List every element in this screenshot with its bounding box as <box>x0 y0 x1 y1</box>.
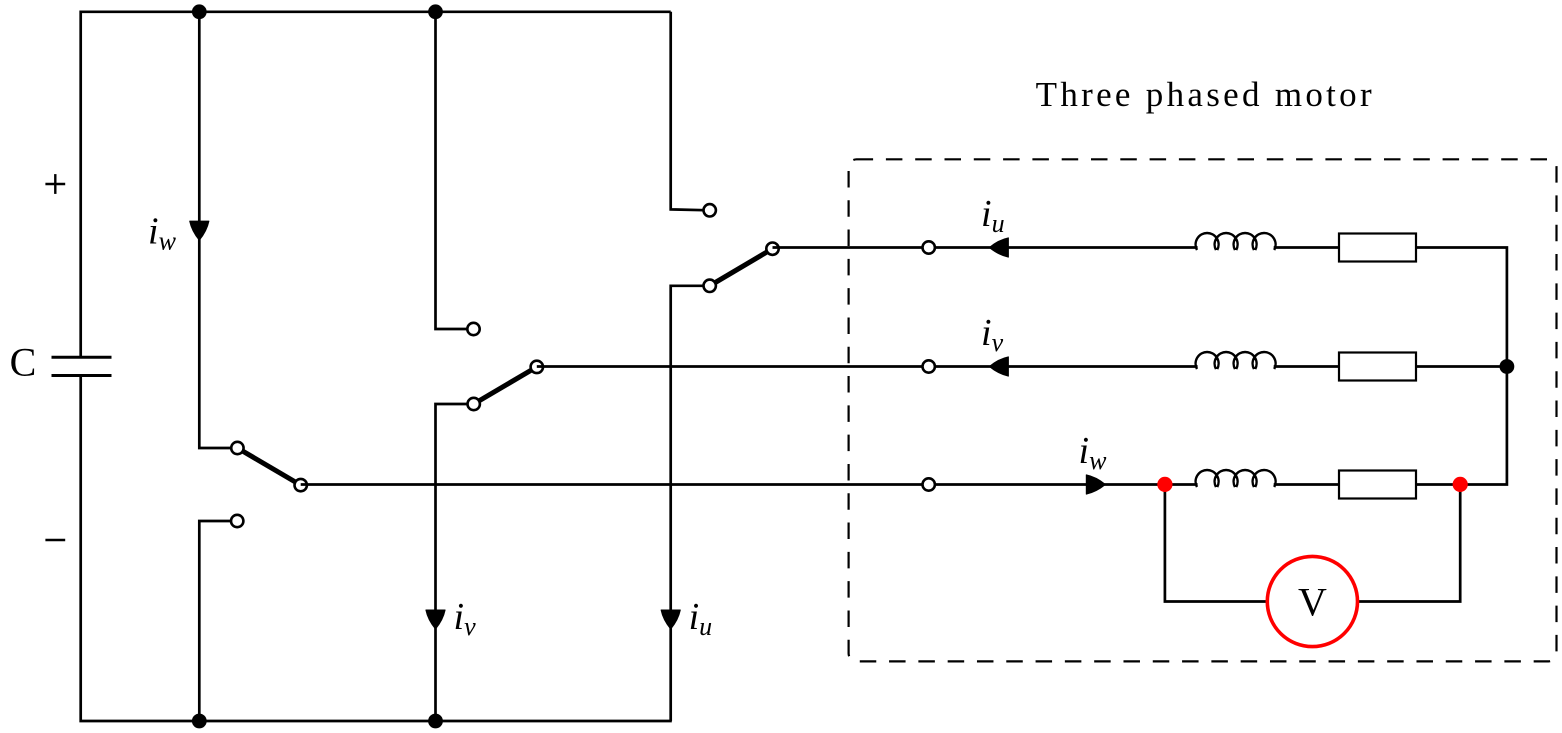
switch SU top contact <box>704 204 716 216</box>
wire bottom rail <box>81 375 672 721</box>
junction top rail / leg v <box>428 4 443 19</box>
junction bottom rail / leg v <box>428 714 443 729</box>
switch SV bottom contact <box>468 398 480 410</box>
arrow i_v (leg v) <box>426 610 445 629</box>
wire phase v line <box>537 365 1198 368</box>
wire top rail <box>81 12 671 358</box>
svg-text:C: C <box>10 340 37 385</box>
arrow i_w (leg w) <box>190 221 209 240</box>
switch SV bar (leg v, closed down) <box>474 367 537 404</box>
wire phase v right <box>1274 365 1339 368</box>
wire leg u top segment <box>671 12 710 211</box>
terminal circle phase w <box>923 478 935 490</box>
svg-text:V: V <box>1298 580 1327 625</box>
wire phase w line <box>301 483 1198 486</box>
capacitor C <box>52 357 112 375</box>
wire leg v bottom segment <box>436 404 474 721</box>
switch SW bar (leg w, closed up) <box>237 448 300 485</box>
resistor R_u <box>1339 234 1416 262</box>
motor enclosure dashed box <box>849 159 1557 661</box>
wire leg u bottom segment <box>671 286 710 721</box>
wire phase w to bus <box>1416 367 1507 485</box>
wire phase w right <box>1274 483 1339 486</box>
wire phase u right <box>1274 246 1339 249</box>
inductor L_u <box>1196 233 1276 250</box>
switch SU bottom contact <box>704 280 716 292</box>
wire leg v top segment <box>436 12 474 329</box>
arrow i_u (leg u) <box>661 610 680 629</box>
arrow i_v (phase v) <box>989 357 1008 376</box>
label + <box>45 174 65 194</box>
inductor L_w <box>1196 470 1276 487</box>
switch SW bottom contact <box>231 515 243 527</box>
node a (red) <box>1157 477 1172 492</box>
wire leg w bottom segment <box>199 521 237 721</box>
svg-text:Three phased motor: Three phased motor <box>1036 75 1375 114</box>
wire phase u to bus <box>1416 248 1507 367</box>
switch SW top contact <box>231 442 243 454</box>
junction bottom rail / leg w <box>192 714 207 729</box>
wire voltmeter right lead <box>1358 484 1461 601</box>
svg-text:iu: iu <box>689 596 713 641</box>
switch SU pole <box>766 243 778 255</box>
wire phase v to bus <box>1416 365 1507 368</box>
terminal circle phase u <box>923 241 935 253</box>
switch SV top contact <box>467 323 479 335</box>
resistor R_w <box>1339 471 1416 499</box>
junction top rail / leg w <box>192 4 207 19</box>
junction bus / phase v <box>1500 359 1515 374</box>
svg-text:iv: iv <box>454 596 477 641</box>
svg-text:iw: iw <box>148 211 177 256</box>
wire phase u line <box>773 246 1198 249</box>
voltmeter V <box>1267 556 1357 646</box>
label &#8722; <box>45 539 65 541</box>
svg-text:iv: iv <box>981 312 1004 357</box>
switch SU bar (leg u, closed down) <box>710 249 773 286</box>
arrow i_w (phase w) <box>1086 475 1105 494</box>
switch SW pole <box>295 479 307 491</box>
svg-text:iu: iu <box>981 193 1005 238</box>
svg-text:iw: iw <box>1079 430 1108 475</box>
inductor L_v <box>1196 352 1276 369</box>
switch SV pole <box>531 361 543 373</box>
resistor R_v <box>1339 353 1416 381</box>
wire voltmeter left lead <box>1165 484 1267 601</box>
node b (red) <box>1453 477 1468 492</box>
arrow i_u (phase u) <box>989 238 1008 257</box>
wire leg w top segment <box>199 12 237 448</box>
terminal circle phase v <box>923 360 935 372</box>
